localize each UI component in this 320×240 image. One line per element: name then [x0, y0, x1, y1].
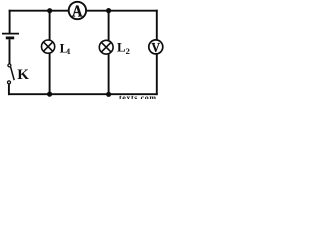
- junction node bottom-right: [106, 92, 111, 97]
- lamp L2: [99, 40, 113, 54]
- lamp L1: [42, 40, 55, 53]
- junction node bottom-left: [47, 92, 52, 97]
- junction node top-right: [106, 8, 111, 13]
- svg-text:A: A: [72, 1, 83, 20]
- wire branch L2 vertical: [108, 11, 110, 95]
- wire left vertical middle (battery to switch): [9, 39, 11, 63]
- switch K lever: [11, 67, 15, 80]
- switch K top terminal: [8, 64, 11, 67]
- wire right vertical: [156, 10, 158, 95]
- svg-text:K: K: [17, 67, 29, 83]
- battery cell short plate: [6, 37, 14, 40]
- ammeter A: [69, 2, 86, 19]
- wire branch L1 vertical: [49, 11, 51, 95]
- voltmeter V: [149, 40, 163, 54]
- switch K bottom terminal: [8, 81, 11, 84]
- wire top horizontal: [9, 10, 158, 12]
- svg-text:1: 1: [67, 47, 71, 56]
- battery cell long plate: [2, 33, 19, 35]
- wire left vertical lower (switch to bottom): [8, 84, 10, 95]
- svg-text:V: V: [151, 41, 160, 56]
- wire bottom horizontal: [8, 93, 158, 95]
- junction node top-left: [47, 8, 52, 13]
- wire left vertical upper (battery top): [9, 10, 11, 34]
- svg-text:2: 2: [126, 46, 130, 56]
